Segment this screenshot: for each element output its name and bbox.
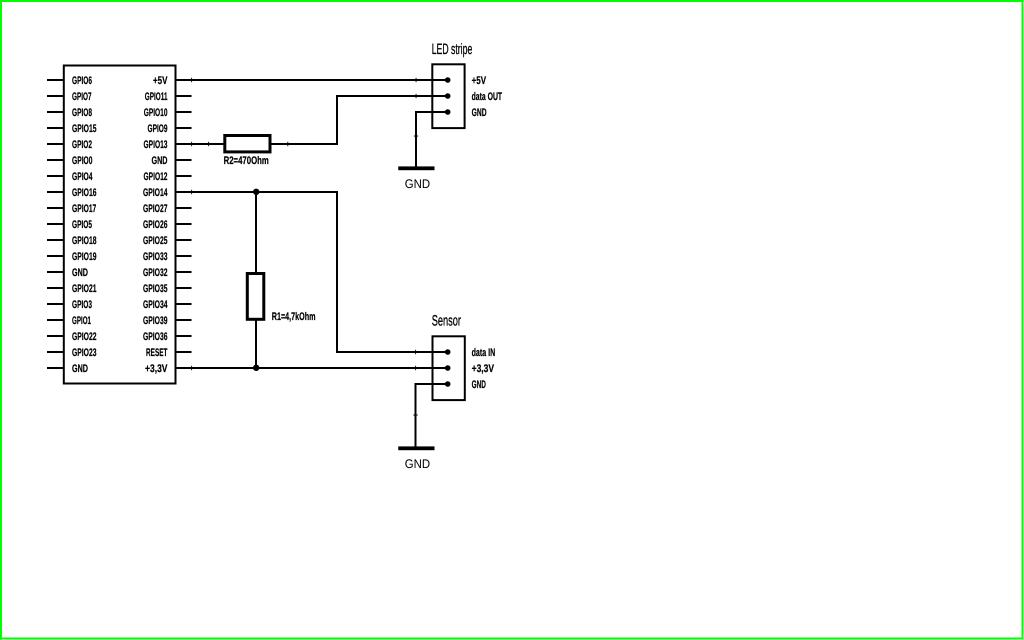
- right pin stubs (19 wires): [176, 80, 192, 368]
- svg-text:+5V: +5V: [472, 75, 487, 87]
- svg-text:GPIO16: GPIO16: [72, 187, 97, 199]
- J1 pin 1 dot: [445, 77, 451, 83]
- svg-text:GPIO4: GPIO4: [72, 171, 93, 183]
- svg-text:GPIO15: GPIO15: [72, 123, 97, 135]
- svg-text:GPIO3: GPIO3: [72, 299, 92, 311]
- svg-text:data IN: data IN: [472, 347, 496, 359]
- svg-text:+3,3V: +3,3V: [145, 363, 168, 375]
- resistor R2 body: [225, 136, 270, 152]
- left pin stubs (19 wires): [47, 80, 63, 368]
- resistor R1 body: [247, 274, 263, 320]
- connector J1 LED stripe body: [432, 64, 464, 128]
- J2 pin 2 dot: [445, 365, 451, 371]
- svg-text:GPIO11: GPIO11: [145, 91, 168, 103]
- svg-text:Sensor: Sensor: [432, 312, 461, 329]
- ground symbol (Sensor): [398, 446, 434, 450]
- wire R2 right terminal horizontal segment: [271, 143, 338, 145]
- wire +3,3V: IC +3,3V pin to Sensor pin 2: [176, 367, 448, 369]
- svg-text:GND: GND: [472, 107, 487, 119]
- svg-text:data OUT: data OUT: [472, 91, 503, 103]
- svg-text:R1=4,7kOhm: R1=4,7kOhm: [272, 311, 316, 323]
- svg-text:GPIO17: GPIO17: [72, 203, 96, 215]
- svg-text:R2=470Ohm: R2=470Ohm: [224, 155, 269, 167]
- svg-text:GPIO14: GPIO14: [143, 187, 168, 199]
- J2 pin 1 dot: [445, 349, 451, 355]
- wire R1 branch vertical (GPIO14 node down through R1 to +3,3V node): [255, 192, 257, 368]
- svg-text:GPIO22: GPIO22: [72, 331, 97, 343]
- svg-text:GND: GND: [152, 155, 168, 167]
- wire LED stripe GND pin stub: [416, 111, 448, 113]
- svg-text:GPIO33: GPIO33: [143, 251, 168, 263]
- wire data IN vertical segment: [336, 191, 338, 353]
- wire LED stripe ground vertical: [415, 111, 417, 168]
- svg-text:GPIO25: GPIO25: [143, 235, 168, 247]
- J2 pin 3 dot: [445, 381, 451, 387]
- svg-text:GPIO32: GPIO32: [143, 267, 168, 279]
- wire Sensor GND pin stub: [416, 383, 448, 385]
- svg-text:GPIO1: GPIO1: [72, 315, 91, 327]
- svg-text:GPIO39: GPIO39: [143, 315, 168, 327]
- svg-text:GPIO36: GPIO36: [143, 331, 168, 343]
- svg-text:GPIO18: GPIO18: [72, 235, 97, 247]
- wire data OUT vertical segment: [336, 96, 338, 143]
- svg-text:GPIO21: GPIO21: [72, 283, 97, 295]
- svg-text:GPIO12: GPIO12: [144, 171, 168, 183]
- J1 pin 3 dot: [445, 109, 451, 115]
- wire Sensor ground vertical: [415, 383, 417, 448]
- svg-text:GPIO7: GPIO7: [72, 91, 92, 103]
- wire GPIO14 horizontal segment: [176, 191, 338, 193]
- wire endpoint ticks: [191, 78, 418, 416]
- svg-text:GPIO9: GPIO9: [148, 123, 168, 135]
- svg-text:GPIO23: GPIO23: [72, 347, 97, 359]
- ground symbol (LED stripe): [398, 166, 434, 170]
- svg-text:+5V: +5V: [153, 75, 168, 87]
- J1 pin 2 dot: [445, 93, 451, 99]
- connector J2 Sensor body: [433, 336, 465, 400]
- svg-text:LED stripe: LED stripe: [432, 41, 473, 58]
- svg-text:GND: GND: [72, 363, 88, 375]
- svg-text:GPIO6: GPIO6: [72, 75, 92, 87]
- svg-text:GPIO10: GPIO10: [144, 107, 168, 119]
- svg-text:GPIO35: GPIO35: [143, 283, 168, 295]
- svg-text:GPIO2: GPIO2: [72, 139, 92, 151]
- svg-text:GND: GND: [72, 267, 88, 279]
- IC U1 ESP32 GPIO header body: [64, 66, 176, 384]
- svg-text:GPIO13: GPIO13: [144, 139, 168, 151]
- junction node +3,3V/R1: [253, 365, 259, 371]
- svg-text:GND: GND: [405, 177, 430, 191]
- svg-text:GPIO5: GPIO5: [72, 219, 92, 231]
- svg-text:GPIO8: GPIO8: [72, 107, 92, 119]
- svg-text:GPIO34: GPIO34: [143, 299, 168, 311]
- wire data OUT horizontal segment to LED stripe pin 2: [336, 95, 448, 97]
- svg-text:RESET: RESET: [146, 347, 168, 359]
- svg-text:GND: GND: [472, 379, 486, 391]
- wire data IN horizontal segment to Sensor pin 1: [336, 351, 448, 353]
- svg-text:GND: GND: [405, 457, 430, 471]
- svg-text:GPIO0: GPIO0: [72, 155, 93, 167]
- svg-text:GPIO27: GPIO27: [143, 203, 168, 215]
- svg-text:GPIO19: GPIO19: [72, 251, 97, 263]
- svg-text:GPIO26: GPIO26: [143, 219, 168, 231]
- junction node GPIO14/R1: [253, 189, 259, 195]
- wire +5V: IC +5V pin to LED stripe pin 1: [176, 79, 448, 81]
- wire GPIO13 to R2 left terminal: [176, 143, 224, 145]
- svg-text:+3,3V: +3,3V: [472, 363, 495, 375]
